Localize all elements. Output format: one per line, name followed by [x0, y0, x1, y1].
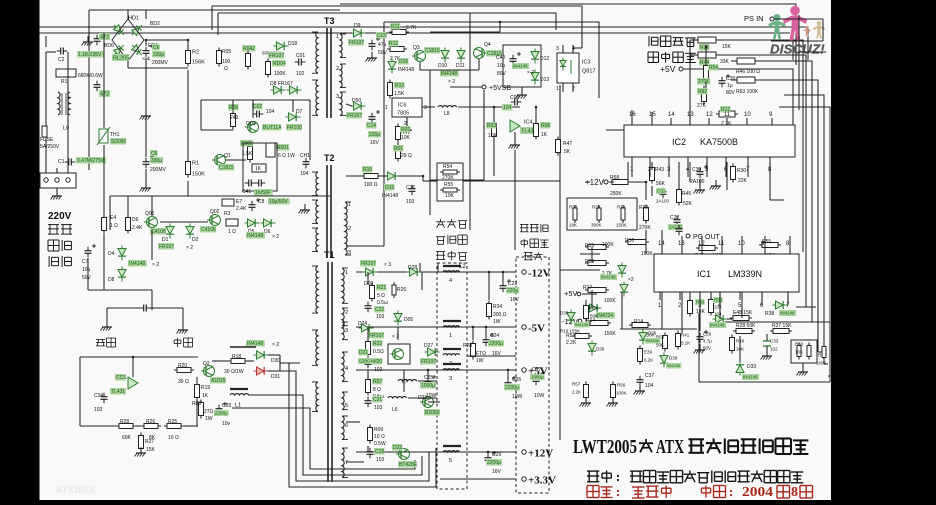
svg-text:D33: D33: [747, 364, 756, 370]
svg-text:390K: 390K: [591, 223, 602, 228]
svg-text:L8: L8: [444, 111, 450, 117]
svg-text:50V: 50V: [82, 275, 92, 281]
svg-text:R35: R35: [592, 205, 601, 210]
svg-text:100K: 100K: [616, 391, 627, 396]
svg-text:IN4148: IN4148: [710, 323, 725, 328]
svg-text:680K/0.6W: 680K/0.6W: [78, 73, 103, 79]
svg-text:IN4148: IN4148: [575, 322, 589, 327]
svg-text:104: 104: [503, 105, 512, 111]
svg-text:16V: 16V: [370, 140, 380, 146]
svg-text:FR107: FR107: [369, 333, 384, 339]
svg-text:× 2: × 2: [272, 342, 279, 348]
svg-text:HD1: HD1: [128, 16, 139, 22]
svg-text:C4106: C4106: [151, 229, 166, 235]
svg-text:IC1: IC1: [697, 269, 711, 279]
svg-text:300 Ω: 300 Ω: [493, 312, 507, 318]
svg-text:R37 15K: R37 15K: [772, 323, 792, 329]
svg-text:100: 100: [222, 59, 231, 65]
svg-text:T3: T3: [324, 16, 335, 26]
svg-text:56K: 56K: [656, 181, 666, 187]
svg-text:2004: 2004: [742, 484, 773, 499]
svg-text:R28: R28: [120, 419, 129, 425]
svg-text:7805: 7805: [397, 111, 409, 117]
svg-text:150K: 150K: [604, 331, 616, 337]
svg-text:29 Ω: 29 Ω: [401, 153, 412, 159]
svg-text:3: 3: [449, 376, 452, 382]
svg-text:Q3: Q3: [413, 45, 420, 51]
svg-text:TH1: TH1: [110, 132, 120, 138]
svg-text:100K: 100K: [816, 361, 827, 366]
svg-text:R07: R07: [373, 379, 382, 385]
svg-text:472: 472: [100, 92, 109, 98]
svg-text:FR107: FR107: [269, 53, 284, 59]
svg-text:IN4148: IN4148: [129, 261, 145, 267]
svg-text:100K: 100K: [604, 298, 616, 304]
svg-text:14: 14: [668, 112, 675, 118]
svg-text:R12: R12: [389, 41, 398, 47]
svg-text:LM339N: LM339N: [728, 269, 762, 279]
svg-text:2A103: 2A103: [656, 199, 670, 204]
svg-text:C27: C27: [532, 367, 541, 373]
svg-text:R29: R29: [585, 259, 594, 265]
svg-text:6: 6: [345, 423, 348, 429]
svg-text:3: 3: [348, 250, 351, 256]
svg-text:C2: C2: [58, 57, 65, 63]
svg-text:103: 103: [94, 407, 103, 413]
svg-text:IN4148: IN4148: [780, 311, 795, 316]
svg-text:D9: D9: [354, 23, 361, 29]
svg-text:C33: C33: [770, 339, 779, 344]
svg-text:R17: R17: [583, 285, 592, 291]
svg-text:R06: R06: [541, 123, 550, 129]
svg-text:IN4148: IN4148: [646, 338, 660, 343]
svg-text:100K: 100K: [274, 71, 286, 77]
svg-text:T2: T2: [324, 153, 335, 163]
svg-text:C31: C31: [657, 189, 666, 194]
svg-text:103: 103: [376, 457, 385, 463]
svg-text:IN4148: IN4148: [441, 71, 457, 77]
svg-text:D39: D39: [596, 347, 605, 352]
svg-text:D18: D18: [288, 41, 297, 47]
svg-text:D4: D4: [108, 251, 115, 257]
svg-text:10K: 10K: [401, 135, 411, 141]
svg-text:FR107: FR107: [347, 113, 362, 119]
svg-text:6.2K: 6.2K: [644, 358, 653, 363]
svg-text:FR10T: FR10T: [361, 261, 376, 267]
svg-text:R54: R54: [709, 65, 718, 71]
svg-text:52K: 52K: [683, 201, 693, 207]
svg-text:R18: R18: [232, 354, 241, 360]
svg-text:-12V: -12V: [528, 268, 551, 280]
svg-text:IN4148: IN4148: [667, 363, 681, 368]
svg-text:R59: R59: [590, 306, 599, 311]
svg-text:R1: R1: [61, 79, 68, 85]
svg-text:1 Ω: 1 Ω: [110, 223, 118, 229]
svg-text:R11: R11: [391, 24, 400, 30]
svg-text:C1: C1: [58, 159, 65, 165]
svg-text:2: 2: [345, 310, 348, 316]
svg-text:C02: C02: [253, 104, 262, 110]
svg-text:FUSE: FUSE: [40, 137, 54, 143]
svg-text:100 Ω: 100 Ω: [364, 182, 378, 188]
svg-text:10K: 10K: [795, 350, 803, 355]
svg-text:D28: D28: [408, 265, 417, 271]
svg-text:15: 15: [649, 112, 656, 118]
svg-text:1μ: 1μ: [727, 83, 733, 89]
svg-text:CC6: CC6: [377, 33, 387, 39]
svg-text:22K: 22K: [738, 178, 748, 184]
svg-text:R57: R57: [572, 382, 581, 387]
svg-text:R19: R19: [617, 205, 626, 210]
svg-text:D16: D16: [399, 59, 408, 65]
svg-text:R43: R43: [655, 167, 664, 173]
svg-text:4.7μ: 4.7μ: [703, 339, 712, 344]
svg-text:FR107: FR107: [421, 359, 436, 365]
svg-text:C40: C40: [496, 55, 505, 61]
svg-text:250K: 250K: [610, 191, 622, 197]
svg-text:R03: R03: [487, 123, 496, 129]
svg-text:102: 102: [770, 347, 778, 352]
svg-text:+12V: +12V: [528, 448, 553, 460]
svg-text:E4: E4: [110, 215, 116, 221]
svg-text:B2060: B2060: [425, 410, 440, 416]
svg-text:10 Ω: 10 Ω: [374, 434, 385, 440]
svg-text:R68: R68: [610, 175, 619, 181]
svg-text:IN4148: IN4148: [743, 375, 758, 380]
svg-text:× 3: × 3: [384, 262, 391, 268]
svg-text:472: 472: [100, 35, 109, 41]
svg-text:10μ: 10μ: [497, 63, 506, 69]
svg-text:R001: R001: [277, 145, 289, 151]
svg-text:C6: C6: [151, 151, 158, 157]
svg-text:C4106: C4106: [201, 227, 216, 233]
svg-text:IC4: IC4: [524, 120, 533, 126]
svg-text:0.5ω: 0.5ω: [377, 300, 388, 306]
svg-text:16V: 16V: [492, 469, 502, 475]
svg-text:R38: R38: [765, 311, 774, 317]
svg-text:2.2K: 2.2K: [566, 340, 577, 346]
svg-text:Q02: Q02: [210, 209, 220, 215]
svg-text:D35: D35: [560, 311, 569, 316]
svg-text:150K: 150K: [192, 172, 205, 178]
svg-text:2200μ: 2200μ: [215, 411, 228, 416]
svg-text:104: 104: [266, 109, 275, 115]
svg-text:R02: R02: [401, 127, 410, 133]
svg-text:10K: 10K: [445, 193, 455, 199]
svg-text:12: 12: [706, 112, 713, 118]
svg-text:R3: R3: [224, 211, 231, 217]
svg-text:2.4K: 2.4K: [236, 206, 247, 212]
svg-text:D50: D50: [352, 98, 361, 104]
svg-text:R16 155K: R16 155K: [560, 329, 580, 334]
svg-text:R01: R01: [394, 146, 403, 152]
svg-text:C26: C26: [703, 332, 712, 337]
svg-text:10K: 10K: [488, 133, 498, 139]
svg-text:10μ: 10μ: [82, 267, 91, 273]
svg-text:ATXBBS: ATXBBS: [54, 485, 96, 496]
svg-text:D1: D1: [162, 237, 169, 243]
svg-text:2: 2: [336, 66, 339, 72]
svg-text:D05: D05: [404, 317, 413, 323]
svg-text:103: 103: [406, 199, 415, 205]
svg-text:R55: R55: [444, 182, 453, 188]
svg-text:270K: 270K: [698, 79, 710, 85]
svg-text:C37: C37: [645, 373, 654, 379]
svg-text:80V: 80V: [497, 71, 507, 77]
svg-text:ATX: ATX: [656, 436, 684, 458]
svg-text:C22: C22: [375, 307, 384, 313]
svg-text:5.1K: 5.1K: [681, 341, 690, 346]
svg-text:× 2: × 2: [186, 245, 193, 251]
svg-text:-5V: -5V: [528, 323, 545, 335]
svg-text:50V: 50V: [378, 50, 388, 56]
svg-text:18K: 18K: [569, 223, 577, 228]
svg-text:D6: D6: [132, 217, 139, 223]
svg-text:R30: R30: [737, 168, 746, 174]
svg-text:8 Ω: 8 Ω: [373, 387, 381, 393]
svg-text:D8 FR167: D8 FR167: [270, 81, 293, 87]
svg-text:R20: R20: [178, 363, 187, 369]
svg-text:C6: C6: [153, 45, 160, 51]
svg-text:150K: 150K: [641, 251, 653, 257]
svg-text:R042: R042: [243, 46, 255, 52]
svg-text:3: 3: [556, 46, 559, 52]
svg-text:2200μ: 2200μ: [489, 341, 503, 347]
svg-text:5: 5: [449, 458, 452, 464]
svg-text:C41: C41: [242, 189, 251, 195]
svg-text:D10: D10: [438, 63, 447, 69]
svg-text:C30: C30: [692, 167, 701, 173]
svg-text:R45: R45: [682, 191, 691, 197]
svg-text:39 Ω: 39 Ω: [178, 379, 189, 385]
svg-text:2.2K: 2.2K: [572, 390, 581, 395]
svg-text:CCS: CCS: [116, 375, 127, 381]
svg-text:1: 1: [348, 202, 351, 208]
svg-text:16: 16: [629, 112, 636, 118]
svg-text:D15: D15: [385, 185, 394, 191]
svg-text:0.5W: 0.5W: [374, 441, 386, 447]
svg-text:C1815: C1815: [219, 165, 234, 171]
svg-text:5 Ω: 5 Ω: [377, 293, 385, 299]
svg-text:D39: D39: [669, 356, 678, 361]
svg-text:R16: R16: [625, 238, 634, 244]
svg-text:2A100: 2A100: [690, 179, 705, 185]
svg-text:1K: 1K: [541, 132, 548, 138]
svg-text:Q01: Q01: [145, 211, 155, 217]
svg-text:50K: 50K: [590, 314, 598, 319]
svg-text:104: 104: [300, 171, 309, 177]
svg-text:BUT11A: BUT11A: [263, 125, 282, 131]
svg-text:D27: D27: [424, 343, 433, 349]
svg-text:156K: 156K: [192, 60, 205, 66]
svg-text:1.5K: 1.5K: [242, 151, 253, 157]
svg-text:6 Ω 1W: 6 Ω 1W: [278, 153, 295, 159]
svg-text:15K: 15K: [722, 44, 732, 50]
svg-text:330μ: 330μ: [151, 158, 162, 164]
svg-text:10v: 10v: [222, 421, 231, 427]
svg-text:R15: R15: [585, 243, 594, 249]
svg-text:CH1: CH1: [300, 153, 310, 159]
svg-text:200MV: 200MV: [150, 167, 167, 173]
svg-text:15K: 15K: [146, 447, 156, 453]
svg-text:103: 103: [376, 314, 385, 320]
svg-text:10W: 10W: [512, 394, 523, 400]
svg-text:L1: L1: [235, 403, 241, 409]
svg-text:C39: C39: [726, 76, 735, 82]
svg-text:Q2: Q2: [203, 361, 210, 367]
svg-text:× 2: × 2: [272, 234, 279, 240]
svg-text:R27: R27: [145, 439, 154, 445]
svg-text:5K: 5K: [564, 149, 571, 155]
svg-text:3: 3: [336, 94, 339, 100]
svg-text:Q4: Q4: [484, 42, 491, 48]
svg-text:C09: C09: [510, 95, 519, 101]
svg-text:R36: R36: [700, 45, 709, 51]
svg-text:D36: D36: [648, 331, 657, 336]
svg-text:BT428E: BT428E: [399, 462, 418, 468]
svg-text:IN4148: IN4148: [247, 341, 263, 347]
svg-text:220V: 220V: [48, 211, 72, 222]
svg-text:102: 102: [296, 71, 305, 77]
svg-text:330μ: 330μ: [153, 52, 164, 58]
svg-text:R21: R21: [377, 285, 386, 291]
svg-text:Ω: Ω: [224, 66, 228, 72]
svg-text:D2: D2: [192, 237, 199, 243]
svg-text:1000μ: 1000μ: [421, 383, 435, 389]
svg-text:R1: R1: [192, 161, 199, 167]
svg-text:C34: C34: [94, 393, 103, 399]
svg-text:× 2: × 2: [448, 79, 455, 85]
svg-text:DISCUZ!: DISCUZ!: [770, 42, 825, 57]
svg-text:10K: 10K: [714, 305, 722, 310]
svg-text:10 Ω: 10 Ω: [168, 435, 179, 441]
svg-text:16K: 16K: [696, 309, 706, 315]
svg-text:R62: R62: [698, 89, 707, 95]
svg-text:1.1K/235V: 1.1K/235V: [78, 52, 102, 58]
svg-text:220μ: 220μ: [507, 288, 518, 294]
svg-text:R06: R06: [229, 105, 238, 111]
svg-text:10: 10: [744, 112, 751, 118]
svg-text:7: 7: [345, 460, 348, 466]
svg-text:+5VSB: +5VSB: [489, 85, 511, 92]
svg-text:1K: 1K: [202, 393, 209, 399]
svg-text:IC2: IC2: [672, 137, 686, 147]
svg-text:× 2: × 2: [152, 262, 159, 268]
svg-text:11: 11: [718, 241, 725, 247]
svg-text:D30: D30: [271, 358, 280, 364]
svg-text:27K: 27K: [697, 103, 707, 109]
svg-text:R41: R41: [681, 333, 690, 338]
svg-text:C24: C24: [490, 333, 499, 339]
svg-text:1: 1: [345, 270, 348, 276]
svg-text:IN4148: IN4148: [398, 67, 414, 73]
svg-text:R26: R26: [146, 419, 155, 425]
svg-text:C8: C8: [258, 199, 265, 205]
svg-text:47μ: 47μ: [378, 42, 387, 48]
svg-text:D21: D21: [359, 350, 368, 356]
svg-text:1n/50F: 1n/50F: [255, 190, 271, 196]
svg-text:TL431: TL431: [111, 389, 125, 395]
svg-text:R05: R05: [222, 49, 231, 55]
svg-text:R32: R32: [639, 205, 648, 211]
svg-text:D6: D6: [264, 229, 271, 235]
svg-text:2.7K: 2.7K: [406, 25, 417, 31]
svg-text:3: 3: [424, 105, 427, 111]
svg-text:5: 5: [345, 403, 348, 409]
svg-text:BD2: BD2: [150, 21, 160, 27]
svg-text:C36: C36: [406, 185, 415, 191]
svg-text:80V: 80V: [726, 90, 736, 96]
svg-text:13: 13: [687, 112, 694, 118]
svg-text:FR100: FR100: [287, 125, 302, 131]
svg-text:R14: R14: [634, 319, 643, 325]
svg-text:C21: C21: [373, 397, 382, 403]
svg-text:C01: C01: [296, 53, 305, 59]
svg-text:C19: C19: [375, 449, 384, 455]
svg-text:RD04: RD04: [273, 61, 286, 67]
svg-text:220μ: 220μ: [369, 132, 380, 138]
svg-text:1 Ω: 1 Ω: [228, 229, 236, 235]
svg-text:1: 1: [385, 105, 388, 111]
svg-text:16V: 16V: [510, 297, 520, 303]
svg-text:×2: ×2: [628, 277, 634, 283]
svg-text:R28: R28: [463, 343, 472, 349]
svg-text:L6: L6: [392, 407, 398, 413]
svg-text:PS IN: PS IN: [744, 14, 764, 23]
svg-text:150K: 150K: [616, 223, 627, 228]
svg-text:1.5K: 1.5K: [394, 91, 405, 97]
svg-text:R19: R19: [201, 385, 210, 391]
svg-text:C29: C29: [492, 452, 501, 458]
svg-text:R13: R13: [395, 83, 404, 89]
svg-text:E7: E7: [236, 199, 242, 205]
svg-text:IN4148: IN4148: [513, 64, 528, 69]
svg-text:R63 100K: R63 100K: [736, 89, 759, 95]
svg-text:33K: 33K: [720, 59, 730, 65]
svg-text:1K: 1K: [255, 166, 262, 172]
svg-text:PG OUT: PG OUT: [693, 234, 721, 241]
svg-text:103: 103: [374, 405, 383, 411]
svg-text:270K: 270K: [639, 225, 651, 231]
svg-text:+3.3V: +3.3V: [528, 475, 556, 487]
svg-text:A1015: A1015: [211, 378, 226, 384]
svg-text:S20C40E: S20C40E: [359, 359, 378, 364]
svg-text:C23: C23: [508, 281, 517, 287]
svg-text:104: 104: [645, 383, 654, 389]
svg-text:1W: 1W: [493, 319, 501, 325]
svg-text:R34: R34: [493, 304, 502, 310]
svg-text:R54: R54: [443, 164, 452, 170]
svg-text:R25: R25: [168, 419, 177, 425]
svg-text:1000μ: 1000μ: [531, 375, 544, 380]
svg-text:Q03: Q03: [246, 121, 256, 127]
svg-text:5A/250V: 5A/250V: [40, 144, 60, 150]
svg-text:D8: D8: [108, 277, 115, 283]
svg-text:D11: D11: [456, 63, 465, 69]
svg-text:R23: R23: [373, 341, 382, 347]
svg-text:0.47M/275V: 0.47M/275V: [77, 158, 105, 164]
svg-text:E48 15K: E48 15K: [733, 310, 753, 316]
svg-text:1: 1: [449, 333, 452, 339]
svg-text:D31: D31: [271, 374, 280, 380]
svg-text:2200μ: 2200μ: [505, 385, 519, 391]
svg-text:D22: D22: [393, 445, 402, 451]
svg-text:1W: 1W: [205, 416, 213, 422]
svg-text:R47: R47: [563, 141, 572, 147]
svg-text:30 Ω/1W: 30 Ω/1W: [224, 369, 244, 375]
svg-text:+5V: +5V: [660, 64, 676, 74]
svg-text:D7: D7: [296, 109, 303, 115]
